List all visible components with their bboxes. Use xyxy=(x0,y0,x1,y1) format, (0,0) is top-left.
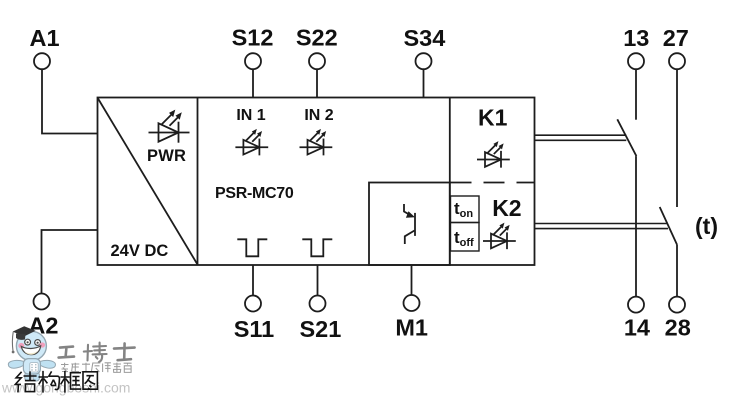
LED PWR xyxy=(149,110,190,143)
terminal circle S34 xyxy=(416,53,432,69)
watermark tagline tiny glyphs xyxy=(61,363,132,373)
terminal circle A2 xyxy=(34,294,50,310)
wire contact 13 xyxy=(635,69,637,119)
svg-text:S21: S21 xyxy=(299,316,341,342)
LED IN2 xyxy=(300,129,333,155)
svg-text:M1: M1 xyxy=(395,315,428,341)
terminal circle A1 xyxy=(34,53,50,69)
svg-text:28: 28 xyxy=(665,315,691,341)
glyph gong xyxy=(59,347,74,358)
watermark brand text gong-bo-shi (drawn glyphs) xyxy=(59,343,135,363)
svg-text:ton: ton xyxy=(454,199,473,220)
mascot chest panel xyxy=(30,363,38,372)
terminal circle 28 xyxy=(669,297,685,313)
mascot eyes xyxy=(25,339,31,345)
svg-text:S11: S11 xyxy=(234,316,275,342)
glyph gou xyxy=(39,371,60,393)
svg-text:toff: toff xyxy=(454,228,474,249)
pulse symbol S11 xyxy=(237,239,267,256)
wire A2 drop xyxy=(42,230,98,294)
svg-text:14: 14 xyxy=(624,315,650,341)
wire S11 xyxy=(252,265,254,296)
divider K section xyxy=(449,98,451,266)
contact blade K1 xyxy=(617,119,636,156)
glyph kuang xyxy=(60,371,81,393)
svg-text:S22: S22 xyxy=(296,25,338,51)
svg-text:IN 1: IN 1 xyxy=(236,107,265,124)
svg-text:13: 13 xyxy=(623,25,649,51)
svg-text:A1: A1 xyxy=(29,25,59,51)
main module box outline xyxy=(98,98,535,266)
svg-text:K1: K1 xyxy=(478,105,508,131)
PSU diagonal xyxy=(98,99,198,265)
t_on box xyxy=(451,196,480,223)
pulse symbol S21 xyxy=(302,239,332,256)
t_off box xyxy=(451,223,480,252)
svg-text:www.gongboshi.com: www.gongboshi.com xyxy=(1,379,130,395)
terminal circle 13 xyxy=(628,53,644,69)
svg-text:PWR: PWR xyxy=(147,147,186,165)
mascot head xyxy=(16,331,46,360)
wire S21 xyxy=(317,265,319,296)
watermark jie-gou-kuang-tu title glyphs xyxy=(15,371,97,393)
mascot cap tassel xyxy=(11,332,14,351)
terminal circle S22 xyxy=(309,53,325,69)
terminal circle M1 xyxy=(404,295,420,311)
svg-text:PSR-MC70: PSR-MC70 xyxy=(215,185,294,202)
mascot cap xyxy=(13,326,36,336)
wire contact 28 xyxy=(676,245,678,297)
svg-text:27: 27 xyxy=(663,25,689,51)
glyph jie xyxy=(15,371,36,392)
wire contact 27 xyxy=(676,69,678,207)
terminal circle 27 xyxy=(669,53,685,69)
wire contact 14 xyxy=(635,156,637,297)
wire S22 xyxy=(316,69,318,97)
K1 actuation double line xyxy=(535,135,627,140)
LED K2 xyxy=(483,223,516,249)
mascot mouth xyxy=(21,346,40,355)
terminal circle 14 xyxy=(628,297,644,313)
LED K1 xyxy=(477,141,510,167)
wire M1 xyxy=(411,265,413,295)
mascot right arm xyxy=(40,360,55,368)
mascot body xyxy=(23,359,40,374)
svg-text:S34: S34 xyxy=(403,25,445,51)
svg-text:K2: K2 xyxy=(492,195,521,221)
semiconductor output symbol xyxy=(404,204,415,244)
svg-text:(t): (t) xyxy=(695,213,718,239)
wire S34 xyxy=(423,69,425,97)
svg-text:24V DC: 24V DC xyxy=(111,242,169,260)
LED IN1 xyxy=(235,129,268,155)
glyph tu xyxy=(83,372,97,389)
terminal circle S11 xyxy=(245,296,261,312)
glyph shi xyxy=(114,343,135,360)
contact blade K2 xyxy=(660,207,677,245)
divider PSU section xyxy=(197,98,199,266)
svg-text:S12: S12 xyxy=(232,25,274,51)
output stage inner box xyxy=(369,183,450,266)
wire S12 xyxy=(252,69,254,97)
dashed separator K1/K2 xyxy=(451,182,535,184)
glyph bo xyxy=(84,343,107,363)
terminal circle S21 xyxy=(310,296,326,312)
K2 actuation double line xyxy=(535,224,669,229)
mascot legs xyxy=(25,372,31,381)
mascot left arm xyxy=(8,360,24,368)
wire A1 drop xyxy=(42,69,98,133)
watermark mascot xyxy=(8,326,55,381)
mascot cheeks xyxy=(18,343,24,349)
terminal circle S12 xyxy=(245,53,261,69)
svg-text:IN 2: IN 2 xyxy=(304,107,333,124)
